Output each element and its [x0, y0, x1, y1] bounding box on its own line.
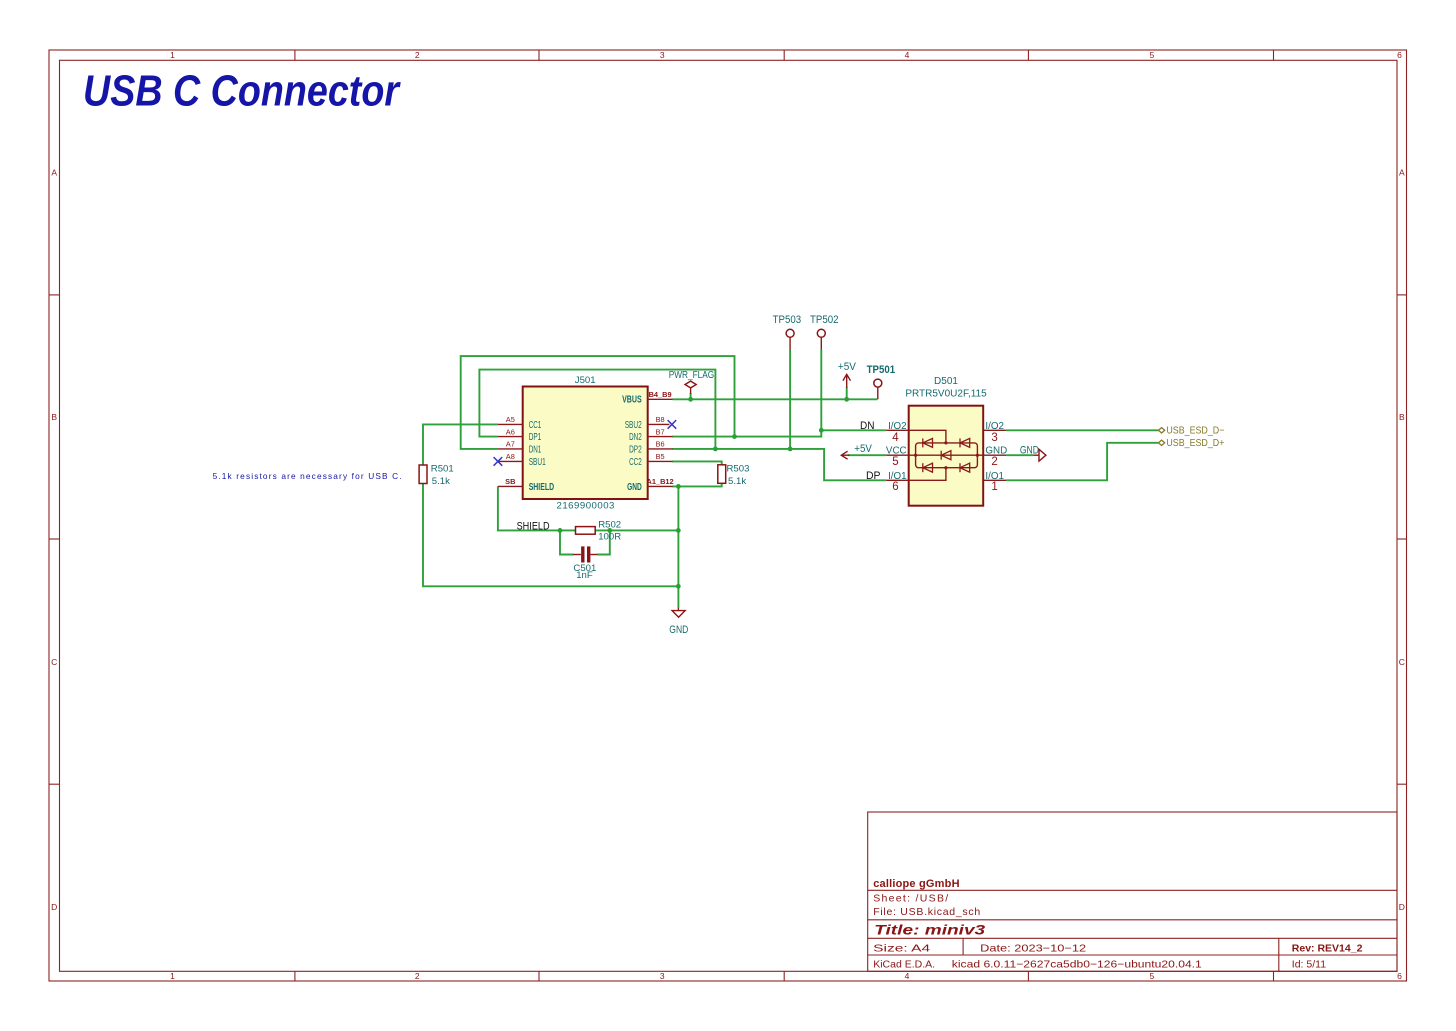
svg-text:DN2: DN2 [629, 432, 642, 443]
svg-text:USB_ESD_D+: USB_ESD_D+ [1166, 437, 1224, 449]
wire CC1 to R501 column [423, 424, 498, 465]
svg-text:DP2: DP2 [629, 444, 642, 455]
pin A8 SBU1 [498, 460, 523, 462]
pin B8 SBU2 [648, 423, 670, 425]
wire C501 left leg [560, 530, 573, 554]
D501 body [909, 406, 984, 506]
frame row letters [51, 167, 1405, 912]
svg-text:GND: GND [627, 482, 642, 493]
svg-text:TP502: TP502 [810, 314, 839, 326]
svg-text:DN1: DN1 [529, 444, 542, 455]
svg-text:SB: SB [505, 477, 515, 486]
wire DP2 to D501 [672, 449, 886, 480]
svg-text:4: 4 [905, 50, 910, 60]
internal nodes [914, 441, 979, 469]
wire CC2 to R503 [672, 461, 722, 464]
svg-text:+5V: +5V [854, 443, 872, 455]
svg-text:4: 4 [905, 971, 910, 981]
svg-text:D: D [1399, 902, 1405, 912]
svg-text:USB_ESD_D−: USB_ESD_D− [1166, 425, 1224, 437]
svg-text:File: USB.kicad_sch: File: USB.kicad_sch [873, 906, 980, 918]
svg-text:CC1: CC1 [529, 420, 542, 431]
svg-text:GND: GND [669, 624, 688, 636]
pin A6 DP1 [498, 436, 523, 438]
svg-text:1: 1 [991, 481, 997, 493]
svg-text:KiCad E.D.A.: KiCad E.D.A. [873, 959, 935, 971]
svg-text:I/O2: I/O2 [985, 421, 1004, 432]
svg-text:6: 6 [1397, 971, 1402, 981]
diode top-right [960, 438, 970, 447]
svg-text:VCC: VCC [886, 446, 907, 457]
pin B4_B9 VBUS [648, 398, 673, 400]
svg-text:R502: R502 [598, 519, 621, 530]
wire PWR_FLAG stub [690, 393, 692, 399]
svg-text:A: A [51, 167, 57, 177]
svg-text:5.1k: 5.1k [728, 476, 746, 487]
svg-text:3: 3 [991, 432, 997, 444]
wire GND column [677, 486, 679, 607]
svg-text:VBUS: VBUS [622, 395, 642, 406]
svg-text:SHIELD: SHIELD [517, 520, 550, 532]
svg-text:A8: A8 [506, 452, 515, 461]
pin 4 I/O2 left [886, 429, 909, 431]
pin B5 CC2 [648, 460, 673, 462]
svg-text:I/O2: I/O2 [888, 421, 907, 432]
svg-text:B7: B7 [656, 427, 665, 436]
wire DN2 to D501 [672, 430, 886, 436]
wire VCC +5V stub [848, 454, 886, 456]
svg-text:4: 4 [892, 432, 899, 444]
pin 2 GND right [983, 454, 1006, 456]
svg-text:PRTR5V0U2F,115: PRTR5V0U2F,115 [905, 389, 987, 400]
wire DP1 up-over [479, 370, 715, 449]
svg-text:3: 3 [660, 50, 665, 60]
svg-text:Rev: REV14_2: Rev: REV14_2 [1292, 942, 1363, 954]
pin 5 VCC left [886, 454, 909, 456]
svg-text:B8: B8 [656, 415, 665, 424]
junction TP502/DN [819, 428, 824, 433]
junction DN2 [732, 434, 737, 439]
svg-text:Date: 2023−10−12: Date: 2023−10−12 [980, 942, 1086, 954]
svg-text:3: 3 [660, 971, 665, 981]
wire DN1 up-over [461, 356, 735, 449]
svg-text:6: 6 [892, 481, 898, 493]
junction DP2 [713, 447, 718, 452]
frame column numbers top [170, 50, 1402, 60]
wire GND right stub [1006, 454, 1033, 456]
svg-text:DP: DP [866, 470, 881, 482]
junction bottom rail / GND column [676, 584, 681, 589]
wire C501 right leg [597, 530, 610, 554]
J501 body [523, 387, 648, 500]
no-connect X at SBU1 [494, 457, 503, 466]
svg-text:A6: A6 [506, 427, 515, 436]
wire VBUS rail [673, 398, 878, 400]
svg-text:B6: B6 [656, 440, 665, 449]
svg-text:Size: A4: Size: A4 [873, 942, 930, 954]
svg-text:1: 1 [170, 971, 175, 981]
wire TP503 drop [789, 350, 791, 449]
svg-text:5: 5 [1150, 971, 1155, 981]
svg-text:100R: 100R [598, 532, 621, 543]
svg-text:B: B [51, 412, 57, 422]
D501 internal graphics [909, 430, 984, 480]
junction R502 line / GND column [676, 528, 681, 533]
svg-text:Id: 5/11: Id: 5/11 [1292, 959, 1326, 971]
svg-text:USB C Connector: USB C Connector [83, 67, 401, 116]
junction GND pin [676, 484, 681, 489]
diode bottom-right [960, 463, 970, 472]
svg-text:5: 5 [892, 456, 898, 468]
svg-text:SHIELD: SHIELD [529, 482, 554, 493]
junction shield net right [607, 528, 612, 533]
svg-text:A5: A5 [506, 415, 515, 424]
junction PWR_FLAG/VBUS [688, 397, 693, 402]
pin 6 I/O1 left [886, 479, 909, 481]
pin A1_B12 GND [648, 485, 673, 487]
svg-text:6: 6 [1397, 50, 1402, 60]
frame column numbers bottom [170, 971, 1402, 981]
svg-text:2: 2 [415, 971, 420, 981]
diode top-left [923, 438, 933, 447]
junction shield net left [558, 528, 563, 533]
svg-text:TP503: TP503 [773, 314, 802, 326]
svg-text:SBU1: SBU1 [529, 457, 546, 468]
svg-text:GND: GND [1020, 445, 1039, 457]
svg-text:C: C [51, 657, 57, 667]
pin B7 DN2 [648, 436, 673, 438]
svg-text:Title: miniv3: Title: miniv3 [874, 921, 985, 937]
svg-text:A1_B12: A1_B12 [647, 477, 674, 486]
diode middle [941, 451, 951, 460]
svg-text:Sheet: /USB/: Sheet: /USB/ [873, 893, 948, 905]
wire TP502 drop [820, 350, 822, 431]
svg-text:A7: A7 [506, 440, 515, 449]
wire R503 bottom stub [672, 483, 722, 486]
svg-text:calliope gGmbH: calliope gGmbH [873, 878, 960, 890]
svg-text:D: D [51, 902, 57, 912]
pin 1 I/O1 right [983, 479, 1006, 481]
svg-text:DN: DN [860, 420, 875, 432]
no-connect X at SBU2 [668, 420, 677, 429]
svg-text:D501: D501 [934, 376, 958, 387]
wire SHIELD drop [498, 486, 576, 530]
svg-text:TP501: TP501 [867, 364, 896, 376]
svg-text:R503: R503 [727, 464, 750, 475]
svg-text:5.1k resistors are necessary f: 5.1k resistors are necessary for USB C. [213, 471, 402, 481]
svg-text:+5V: +5V [838, 361, 857, 373]
svg-text:2169900003: 2169900003 [557, 500, 615, 511]
svg-text:2: 2 [415, 50, 420, 60]
wire I/O2 to USB_ESD_D- [1006, 429, 1158, 431]
svg-text:B: B [1399, 412, 1405, 422]
svg-text:2: 2 [991, 456, 997, 468]
svg-text:A: A [1399, 167, 1405, 177]
pin B6 DP2 [648, 448, 673, 450]
wire I/O1 to USB_ESD_D+ [1006, 443, 1158, 481]
svg-text:5: 5 [1150, 50, 1155, 60]
pin SB SHIELD [498, 485, 523, 487]
svg-text:SBU2: SBU2 [625, 420, 642, 431]
svg-text:5.1k: 5.1k [432, 476, 450, 487]
svg-text:1nF: 1nF [576, 570, 593, 581]
pin A5 CC1 [498, 423, 523, 425]
wire R502 right segment [595, 529, 678, 531]
svg-text:kicad 6.0.11−2627ca5db0−126−ub: kicad 6.0.11−2627ca5db0−126−ubuntu20.04.… [952, 959, 1202, 971]
wire R501 bottom to bottom rail [423, 484, 678, 587]
svg-text:C: C [1399, 657, 1405, 667]
svg-text:DP1: DP1 [529, 432, 542, 443]
svg-text:B4_B9: B4_B9 [649, 390, 672, 399]
svg-text:B5: B5 [656, 452, 665, 461]
pin A7 DN1 [498, 448, 523, 450]
title block [868, 812, 1397, 971]
svg-text:J501: J501 [575, 375, 596, 386]
pin 3 I/O2 right [983, 429, 1006, 431]
junction +5V/VBUS [844, 397, 849, 402]
svg-text:1: 1 [170, 50, 175, 60]
svg-text:CC2: CC2 [629, 457, 642, 468]
svg-text:GND: GND [985, 446, 1007, 457]
svg-text:R501: R501 [431, 464, 454, 475]
wire +5V stub at VBUS [846, 387, 848, 399]
svg-text:PWR_FLAG: PWR_FLAG [669, 370, 715, 381]
diode bottom-left [923, 463, 933, 472]
junction TP503/DP2 [788, 447, 793, 452]
